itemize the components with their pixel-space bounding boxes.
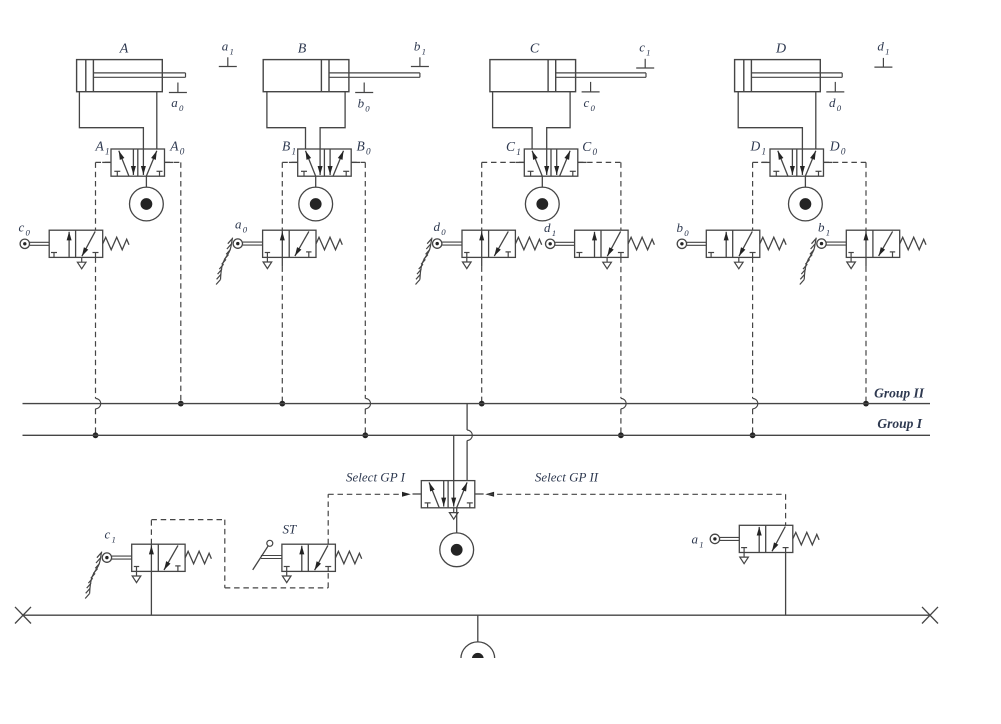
pilot line B1 (dashed)	[282, 161, 297, 163]
limit mark a0	[169, 92, 187, 94]
wire C cap port	[493, 92, 532, 149]
wire c1 to rail	[150, 571, 152, 615]
select GP I arrow	[402, 492, 411, 497]
wire D rod port	[815, 92, 817, 149]
limit mark d1	[874, 66, 892, 68]
3/2 limit valve b0 (rest)	[677, 230, 786, 269]
select GP II arrow	[485, 492, 494, 497]
svg-text:Select GP I: Select GP I	[346, 470, 406, 485]
3/2 limit valve b1 (actuated)	[800, 230, 926, 284]
limit mark b0	[355, 92, 373, 94]
svg-text:ST: ST	[283, 522, 298, 537]
pilot line A0 (dashed)	[165, 161, 181, 163]
main air rail	[23, 614, 930, 616]
3/2 limit valve d0 (actuated)	[416, 230, 542, 284]
wire a1 to rail	[785, 553, 787, 616]
wire B rod port	[320, 92, 345, 149]
junction C0/Group I	[618, 432, 624, 438]
svg-text:Select GP II: Select GP II	[535, 470, 599, 485]
wire rail to bottom source	[477, 615, 479, 642]
limit mark a1	[219, 66, 237, 68]
cylinder D	[735, 60, 843, 92]
svg-text:A: A	[119, 42, 129, 57]
pressure source C	[525, 187, 559, 221]
bottom white clip band	[0, 658, 1001, 724]
pilot line Select GP II to a1 (dashed)	[488, 493, 786, 495]
junction D0/Group II	[863, 401, 869, 407]
junction B0/Group I	[362, 432, 368, 438]
pressure source B	[299, 187, 333, 221]
wire A cap port	[79, 92, 143, 149]
5/2 valve C body	[516, 149, 587, 176]
3/2 limit valve a0 (actuated)	[216, 230, 342, 284]
wire Group I to selector	[453, 435, 455, 480]
selector exhaust	[453, 508, 455, 513]
svg-text:D: D	[775, 42, 786, 57]
supply line valve D	[804, 176, 806, 187]
5/2 valve group selector body	[413, 481, 484, 508]
supply line valve C	[541, 176, 543, 187]
Group I bus	[23, 434, 931, 436]
rail end X right	[922, 607, 938, 624]
supply line valve B	[315, 176, 317, 187]
pressure source D	[789, 187, 823, 221]
limit mark c1	[636, 67, 654, 69]
wire C rod port	[547, 92, 570, 149]
wire Group II to selector (hops Group I)	[466, 404, 468, 431]
pilot line B0 (dashed)	[351, 161, 365, 163]
svg-text:C: C	[530, 42, 540, 57]
5/2 valve B body	[289, 149, 360, 176]
junction A1/Group I	[93, 432, 99, 438]
svg-text:Group I: Group I	[877, 416, 922, 431]
cylinder B	[263, 60, 420, 92]
pilot line C1 (dashed)	[482, 161, 525, 163]
3/2 limit valve c0 (rest)	[20, 230, 129, 269]
3/2 limit valve d1 (rest)	[546, 230, 655, 269]
5/2 valve A body	[102, 149, 173, 176]
junction B1/Group II	[279, 401, 285, 407]
Group II bus	[23, 403, 931, 405]
pressure source bottom (clipped)	[461, 642, 495, 676]
limit mark b1	[411, 66, 429, 68]
rail end X left	[15, 607, 31, 624]
wire D cap port	[738, 92, 802, 149]
pilot line A1 (dashed)	[96, 161, 112, 163]
svg-text:Group II: Group II	[874, 386, 925, 401]
5/2 valve D body	[761, 149, 832, 176]
pilot line D1 (dashed)	[753, 161, 770, 163]
cylinder C	[490, 60, 646, 92]
wire B cap port	[267, 92, 306, 149]
wire A rod port	[156, 92, 158, 149]
pressure source selector	[440, 533, 474, 567]
supply line valve A	[145, 176, 147, 187]
pilot line D0 (dashed)	[824, 161, 867, 163]
pilot chain c1/ST to Select GP I (dashed)	[150, 520, 152, 545]
3/2 limit valve a1 (rest)	[710, 525, 819, 563]
limit mark c0	[582, 91, 600, 93]
pressure source A	[130, 187, 164, 221]
junction D1/Group I	[750, 432, 756, 438]
pilot line C0 (dashed)	[578, 161, 621, 163]
3/2 limit valve ST (rest)	[253, 540, 362, 582]
3/2 limit valve c1 (actuated)	[85, 544, 211, 598]
cylinder A	[77, 60, 186, 92]
junction A0/Group II	[178, 401, 184, 407]
junction C1/Group II	[479, 401, 485, 407]
limit mark d0	[826, 91, 844, 93]
selector supply line	[456, 508, 458, 534]
svg-text:B: B	[298, 42, 307, 57]
